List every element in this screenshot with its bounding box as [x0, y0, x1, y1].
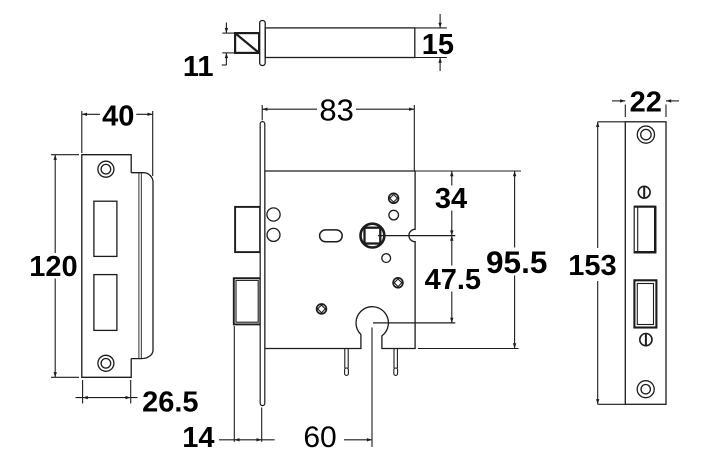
svg-text:11: 11 — [183, 51, 214, 83]
dimension 95.5 — [514, 171, 516, 349]
dimension 14 — [219, 326, 275, 442]
svg-text:22: 22 — [630, 87, 662, 119]
screw lower-left — [317, 304, 327, 314]
faceplate body — [625, 122, 666, 405]
svg-text:40: 40 — [102, 100, 134, 132]
deadbolt opening with bolt face — [634, 280, 656, 327]
svg-text:15: 15 — [422, 29, 454, 61]
dimension 47.5 — [451, 236, 453, 323]
strike plate screw hole bottom — [98, 355, 114, 371]
strike plate body — [82, 155, 131, 378]
dimension 22 — [612, 101, 679, 117]
svg-text:26.5: 26.5 — [142, 387, 198, 419]
dimension 83 — [262, 105, 414, 171]
dimension 34 — [451, 171, 453, 236]
hub centre leader line — [378, 235, 455, 237]
oval slot — [320, 230, 343, 242]
case bottom extension to right — [418, 348, 519, 350]
cylinder centre leader — [373, 322, 455, 324]
svg-text:120: 120 — [29, 251, 77, 283]
top edge extension (153) — [598, 121, 626, 123]
screw mid-right — [393, 278, 403, 288]
dimension 26.5 — [76, 380, 138, 404]
deadbolt (front view) — [234, 278, 260, 324]
lock faceplate (front view) — [260, 122, 265, 406]
faceplate (top view) — [260, 21, 266, 66]
mounting pin left — [345, 349, 349, 376]
dimension 60 — [344, 439, 372, 441]
dimension 120 — [51, 155, 79, 378]
strike plate curved lip — [131, 173, 153, 359]
case top extension to right — [415, 170, 521, 172]
svg-text:34: 34 — [435, 183, 467, 215]
small circle above hub — [389, 210, 399, 220]
screw top-right — [389, 193, 399, 203]
strike plate cutout upper — [94, 201, 117, 256]
strike plate cutout lower — [94, 275, 117, 331]
latch bolt (top view, thick outline) — [235, 33, 259, 53]
dimension 11 extension lines — [222, 23, 235, 66]
svg-text:14: 14 — [182, 422, 214, 454]
svg-text:47.5: 47.5 — [425, 264, 481, 296]
faceplate screw hole top — [637, 126, 654, 143]
svg-text:153: 153 — [568, 250, 616, 282]
lock case outline with hub notch and cylinder keyhole — [265, 171, 415, 349]
guide circles beside latch — [267, 208, 280, 221]
dimension 15 arrows — [438, 23, 441, 28]
svg-text:60: 60 — [303, 421, 336, 454]
latch bolt (front view) — [235, 207, 260, 252]
dimension 15 extension lines — [415, 14, 447, 71]
mounting pin right — [394, 349, 398, 376]
svg-text:95.5: 95.5 — [486, 244, 547, 280]
strike plate screw hole top — [98, 161, 114, 177]
60 extension line from cylinder centre — [371, 328, 373, 448]
latch opening with latch face — [634, 206, 656, 253]
dimension 40 — [82, 111, 153, 176]
strike lip inner double line — [139, 173, 141, 358]
screw head upper — [638, 186, 650, 198]
faceplate screw hole bottom — [637, 381, 654, 398]
screw head lower — [640, 334, 652, 346]
svg-text:83: 83 — [319, 93, 353, 128]
small circle below hub — [382, 254, 391, 263]
dimension 153 — [597, 122, 599, 405]
lock body (top view) — [265, 28, 415, 58]
spindle hub — [361, 224, 385, 248]
dimension 11 arrows — [225, 28, 228, 33]
